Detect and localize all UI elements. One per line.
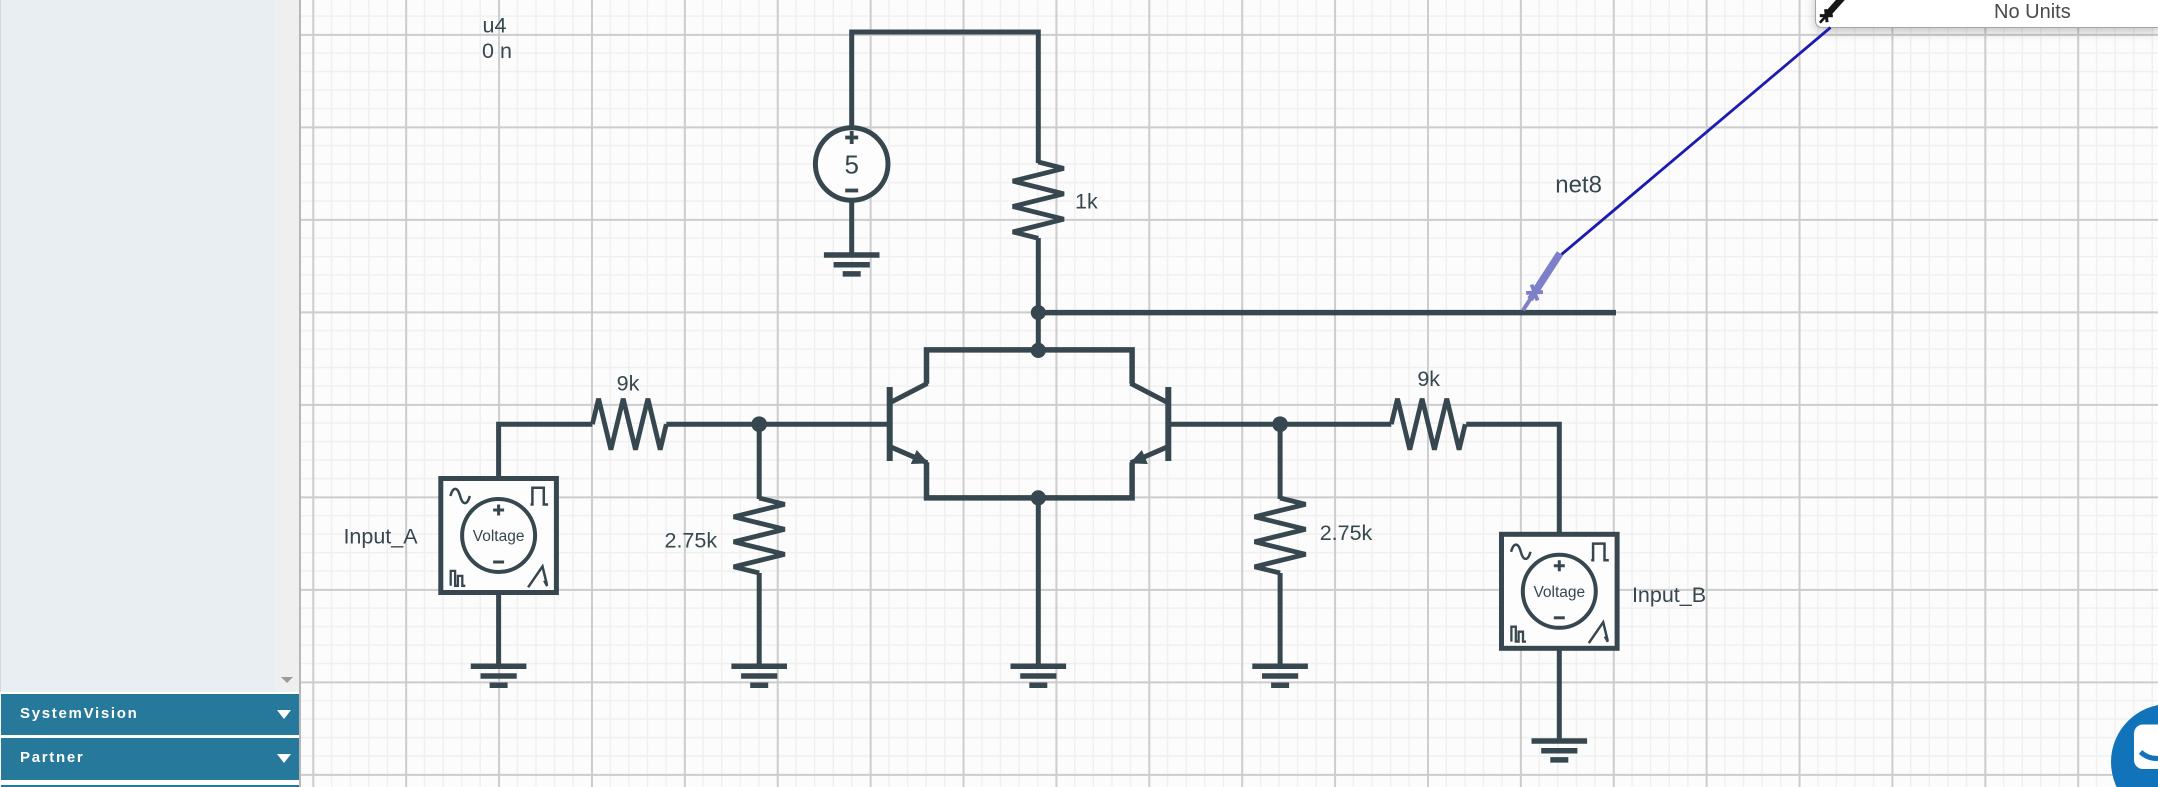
chat button (bottom right) (2111, 704, 2158, 787)
wire Input_B to ground (1557, 649, 1562, 739)
wire R4 to ground (1278, 573, 1283, 664)
svg-text:Input_A: Input_A (343, 525, 418, 549)
voltage source Input_B symbol (1502, 534, 1618, 648)
wire R5 to Input_B (1466, 424, 1559, 534)
junction node B (1272, 416, 1288, 432)
ground below V1 (824, 255, 880, 274)
svg-text:0 n: 0 n (482, 39, 512, 63)
Q2 emitter diagonal (1131, 447, 1167, 463)
probe pen cursor (purple) (1517, 250, 1565, 314)
Q1 emitter diagonal (891, 447, 927, 463)
transistor Q1 base bar (887, 387, 893, 461)
ground below Input_A (471, 666, 527, 685)
V1 minus sign (845, 189, 858, 193)
resistor R1 1k (1013, 162, 1064, 238)
ground below Input_B (1532, 741, 1588, 760)
accordion Partner (1, 738, 299, 780)
junction node collector rail (1031, 343, 1046, 358)
emitter rail of diff pair (927, 462, 1133, 498)
Q2 collector diagonal (1131, 383, 1168, 402)
svg-text:net8: net8 (1555, 172, 1602, 199)
Q1 emitter arrow (911, 450, 929, 464)
svg-text:2.75k: 2.75k (1320, 521, 1373, 545)
pen tool icon (black, in panel) (1816, 0, 1850, 26)
resistor R5 9k right (1391, 399, 1465, 450)
wire R1 to bus (1036, 238, 1041, 313)
svg-text:1k: 1k (1075, 190, 1098, 214)
svg-text:Input_B: Input_B (1632, 583, 1706, 607)
junction node emitter rail (1031, 490, 1046, 505)
accordion SystemVision (1, 694, 299, 735)
wire V1 to ground (849, 200, 854, 253)
wire Input_A to R2 (499, 424, 593, 478)
Q2 emitter arrow (1130, 450, 1148, 464)
ground below R4 (1252, 666, 1308, 685)
wire emitter rail to ground (1036, 498, 1041, 664)
resistor R2 9k (592, 399, 666, 450)
accordion sliver (1, 785, 299, 787)
voltage source V1 5V circle (815, 128, 888, 201)
wire bus to collector rail (1036, 313, 1041, 350)
sidebar scrollbar track (275, 0, 299, 692)
voltage source Input_A symbol (441, 479, 557, 593)
ground below R3 (731, 666, 787, 685)
wire R2 to Q1 base (666, 422, 887, 427)
wire top rail from 5V to 1k (852, 32, 1039, 163)
left sidebar panel (0, 0, 276, 692)
collector rail of diff pair (927, 350, 1133, 384)
junction node on bus (1031, 305, 1046, 320)
resistor R3 2.75k left (734, 498, 785, 573)
wire node B to R4 (1278, 424, 1283, 499)
net8 bus wire (1038, 310, 1616, 316)
wire Q2 base to node B (1171, 422, 1392, 427)
wire R3 to ground (757, 573, 762, 664)
svg-text:5: 5 (844, 150, 858, 180)
junction node A (751, 416, 767, 432)
svg-text:9k: 9k (617, 372, 640, 396)
svg-text:2.75k: 2.75k (664, 529, 717, 553)
Q1 collector diagonal (891, 383, 928, 402)
scrollbar caret (281, 677, 293, 683)
wire node A to R3 (757, 424, 762, 499)
svg-text:u4: u4 (483, 14, 507, 38)
wire Input_A to ground (496, 593, 501, 665)
svg-text:9k: 9k (1417, 367, 1440, 391)
V1 plus sign (845, 131, 858, 144)
ground center (1011, 666, 1067, 685)
No Units tooltip panel (1815, 0, 2158, 28)
resistor R4 2.75k right (1255, 498, 1306, 573)
probe wire (blue) (1562, 28, 1831, 255)
transistor Q2 base bar (1165, 387, 1171, 461)
